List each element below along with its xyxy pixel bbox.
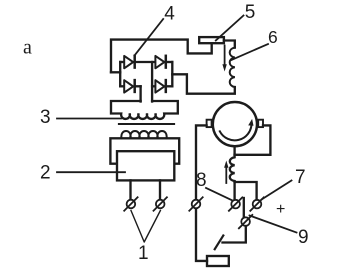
- wire AC entry into bridge left rail: [111, 71, 120, 73]
- wire motor bottom step: [233, 147, 235, 155]
- arrow up beside coil L8: [224, 161, 228, 184]
- leader lines for 1: [131, 211, 160, 243]
- winding 2 arcs: [121, 131, 166, 138]
- svg-text:a: a: [23, 37, 32, 59]
- wire motor right brush down to bottom node: [235, 125, 271, 154]
- svg-text:8: 8: [196, 170, 207, 191]
- winding 2 frame box: [110, 138, 179, 163]
- leader line for 6: [232, 44, 269, 60]
- terminal A: [124, 197, 137, 210]
- terminal 3: [250, 197, 263, 210]
- svg-text:4: 4: [164, 4, 175, 25]
- terminal C: [189, 197, 202, 210]
- leader line for 8: [206, 188, 232, 200]
- terminal 4: [239, 215, 252, 228]
- arrow down beside coil L6: [222, 46, 226, 72]
- transformer core: [119, 123, 174, 125]
- leader line for 5: [216, 16, 244, 41]
- leader line for 2: [57, 171, 125, 173]
- leader line for 3: [57, 118, 121, 120]
- leader line for 4: [135, 19, 164, 56]
- svg-text:3: 3: [40, 107, 51, 128]
- svg-text:+: +: [276, 201, 285, 218]
- coil L6: [230, 48, 235, 87]
- svg-text:7: 7: [295, 167, 306, 188]
- motor left brush: [207, 120, 212, 127]
- diode VD3 (bottom-left): [120, 80, 140, 93]
- wire terminal 4 to switch: [223, 226, 246, 243]
- terminal 2: [229, 197, 242, 210]
- bridge right rail: [171, 62, 173, 86]
- diode VD4 (bottom-right): [152, 80, 172, 93]
- motor rotation arc: [220, 119, 254, 140]
- resistor R5: [199, 37, 224, 43]
- wire resistor R5 to coil L6: [224, 41, 235, 48]
- bridge left rail: [119, 62, 121, 86]
- leader line for 9: [250, 216, 297, 233]
- coil L8: [230, 155, 235, 182]
- wire block2 to terminal A: [129, 180, 131, 199]
- wire motor left brush to terminal C: [196, 125, 207, 199]
- terminal B: [154, 197, 167, 210]
- motor M circle: [213, 102, 257, 146]
- diode VD1 (top-left): [120, 56, 155, 69]
- wire top loop from bridge AC input to resistor R5: [111, 40, 212, 73]
- motor right brush: [258, 120, 263, 127]
- wire winding3 lead A: [139, 86, 141, 101]
- leader line for 7: [262, 181, 292, 200]
- wire bridge DC output to coil L6: [172, 74, 235, 93]
- svg-text:1: 1: [138, 243, 149, 264]
- block 2 (inner box): [117, 151, 174, 180]
- svg-text:9: 9: [298, 227, 309, 248]
- wire terminal C to bottom resistor: [196, 209, 207, 261]
- svg-text:2: 2: [40, 163, 51, 184]
- switch lever: [215, 236, 224, 250]
- wire coil L8 branch to terminal 3: [235, 182, 257, 199]
- wire terminal2 slash to terminal 4: [243, 198, 245, 217]
- svg-text:6: 6: [268, 27, 278, 47]
- diode VD2 (top-right): [155, 56, 172, 69]
- bridge middle rail: [151, 62, 153, 102]
- wire coil L8 to terminal 2: [233, 182, 235, 199]
- svg-text:5: 5: [245, 2, 256, 23]
- winding 3 (transformer secondary block): [111, 101, 178, 119]
- wire block2 to terminal B: [159, 180, 161, 199]
- resistor R (bottom): [207, 256, 229, 266]
